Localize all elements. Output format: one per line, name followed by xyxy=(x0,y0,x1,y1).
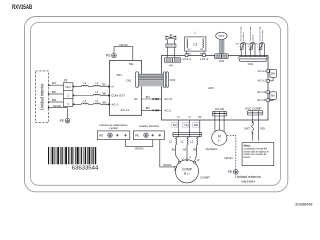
svg-text:Cuadro eléctrico: Cuadro eléctrico xyxy=(139,124,160,128)
svg-text:t°: t° xyxy=(257,46,259,49)
svg-text:AC-L3: AC-L3 xyxy=(258,79,267,83)
svg-text:RD: RD xyxy=(194,123,198,127)
ground symbol in Cuadro box xyxy=(144,133,148,137)
wire YE/GN from interior to PE xyxy=(48,108,67,119)
svg-text:PE: PE xyxy=(99,133,103,137)
reactor L3 box xyxy=(185,37,206,51)
wires coils to compressor xyxy=(176,145,197,161)
svg-text:AC-L2: AC-L2 xyxy=(258,69,267,73)
svg-text:PE: PE xyxy=(129,62,133,66)
inductor L1 row1 xyxy=(81,85,88,86)
svg-text:BU: BU xyxy=(172,148,176,152)
connector CN3 on AP2 xyxy=(163,72,165,88)
inductor L4 row3 xyxy=(93,103,100,104)
fan wires xyxy=(215,116,224,132)
svg-text:3G088408: 3G088408 xyxy=(295,203,312,207)
fan connector xyxy=(212,111,227,116)
thermistor RT1 xyxy=(240,42,246,57)
X1 terminal dots xyxy=(48,85,74,109)
svg-text:U: U xyxy=(182,158,184,161)
SAT protector wires xyxy=(252,115,259,141)
plug connector on BN wire xyxy=(153,109,160,111)
svg-text:AP1: AP1 xyxy=(117,73,123,77)
svg-text:Sensor de temp.: Sensor de temp. xyxy=(258,26,261,42)
wire PE above AP1 (YE/GN) xyxy=(114,47,133,61)
svg-text:BU: BU xyxy=(103,83,107,87)
svg-text:W: W xyxy=(198,115,201,119)
wire label box YE xyxy=(183,123,189,127)
svg-text:YE: YE xyxy=(184,123,188,127)
svg-text:BN: BN xyxy=(52,98,56,102)
compressor coil leads xyxy=(176,137,200,139)
wire BN from interior xyxy=(48,101,63,103)
wire AP1 N1 to AP2 AC-N (BU) xyxy=(142,98,162,100)
svg-text:Sensor de temp.: Sensor de temp. xyxy=(249,26,252,42)
svg-text:BN: BN xyxy=(200,49,203,51)
thermistor RT3 xyxy=(259,42,265,57)
svg-text:de tubería: de tubería xyxy=(242,31,245,41)
ground PE fan xyxy=(234,170,239,175)
svg-text:LX1-2: LX1-2 xyxy=(200,57,209,61)
inductor L1 (V) xyxy=(187,139,188,145)
ground PE above AP1 xyxy=(112,53,117,58)
svg-text:t°: t° xyxy=(248,46,250,49)
svg-text:BU: BU xyxy=(188,54,191,56)
svg-text:YE/GN: YE/GN xyxy=(163,163,172,167)
svg-text:CF-AN: CF-AN xyxy=(215,107,224,111)
Cuadro box xyxy=(133,131,164,140)
svg-text:L: L xyxy=(194,31,196,35)
jumper BN box xyxy=(270,69,277,77)
wire row2 X1 to AP1 (COM-OUT) xyxy=(73,95,94,97)
svg-text:N(1): N(1) xyxy=(65,85,70,89)
solenoid valve 4V symbol xyxy=(166,35,176,44)
svg-text:L1: L1 xyxy=(181,140,185,144)
L3 left coil xyxy=(187,39,188,48)
L3 right coil xyxy=(203,39,204,48)
OVC-COMP connector xyxy=(247,111,262,115)
svg-text:CKV: CKV xyxy=(219,34,225,38)
edge terminal marks right xyxy=(267,70,269,102)
svg-text:Ventilador: Ventilador xyxy=(206,147,218,151)
svg-text:CN1: CN1 xyxy=(219,59,225,63)
svg-text:exterior: exterior xyxy=(252,34,255,41)
jumper BU box xyxy=(270,92,277,100)
compressor wires U V W xyxy=(178,120,199,132)
svg-text:OVC-COMP: OVC-COMP xyxy=(245,107,262,111)
svg-text:BU: BU xyxy=(173,123,177,127)
svg-text:Unidad interior: Unidad interior xyxy=(39,83,44,110)
svg-text:CN1: CN1 xyxy=(126,79,132,83)
svg-text:BK: BK xyxy=(103,92,107,96)
svg-text:RD: RD xyxy=(260,126,265,130)
svg-text:BU: BU xyxy=(188,49,191,51)
svg-text:N1: N1 xyxy=(134,97,138,101)
wire AP1 AC-L1 to AP2 AC-L (BN) xyxy=(142,109,162,111)
svg-text:YE/GN: YE/GN xyxy=(135,146,144,150)
wire label box RD xyxy=(193,123,199,127)
svg-text:PE: PE xyxy=(106,54,110,58)
L3 wires to LX1 connectors xyxy=(187,51,204,55)
plug connector on BU wire xyxy=(153,98,160,100)
YE/GN wire Cuadro to compressor E xyxy=(160,140,175,167)
svg-text:YE: YE xyxy=(183,148,187,152)
svg-text:AC-L: AC-L xyxy=(164,108,171,112)
unidad interior dashed box xyxy=(36,71,49,123)
entry arrows into AP1 xyxy=(108,85,110,105)
svg-text:BU: BU xyxy=(146,95,150,99)
svg-text:AC-L: AC-L xyxy=(112,102,119,106)
svg-text:U: U xyxy=(177,115,179,119)
fan motor M xyxy=(212,130,227,145)
outer border frame xyxy=(25,17,288,192)
svg-text:Sensor de temp.: Sensor de temp. xyxy=(240,26,243,42)
svg-text:de descarga: de descarga xyxy=(261,29,264,41)
dashed ground wire fan xyxy=(227,135,236,169)
svg-text:PE: PE xyxy=(60,119,64,123)
4V connector on AP2 xyxy=(164,58,180,63)
svg-text:63633544: 63633544 xyxy=(241,179,255,183)
svg-text:SAT: SAT xyxy=(244,126,250,130)
PCB box AP1 xyxy=(110,61,142,116)
svg-text:1~: 1~ xyxy=(218,138,222,142)
inductor L1 row3 xyxy=(81,103,88,104)
terminal block X1 xyxy=(63,83,73,107)
svg-text:AC-N1: AC-N1 xyxy=(257,90,267,94)
svg-text:BK: BK xyxy=(52,90,56,94)
wire row1 X1 to AP1 (N) xyxy=(73,86,81,88)
svg-text:L3: L3 xyxy=(193,42,197,46)
barcode xyxy=(48,147,96,164)
svg-text:PE: PE xyxy=(228,170,232,174)
svg-text:Unidad exterior: Unidad exterior xyxy=(235,175,261,179)
CKV cable xyxy=(219,39,224,54)
svg-text:CN2: CN2 xyxy=(248,62,254,66)
svg-text:N: N xyxy=(112,85,114,89)
capacitor CKV xyxy=(216,32,227,39)
Lamina box xyxy=(97,131,129,140)
svg-text:AP2: AP2 xyxy=(208,86,214,90)
svg-text:BN: BN xyxy=(146,106,150,110)
svg-text:COMP: COMP xyxy=(200,176,209,180)
CN1 connector on AP2 xyxy=(215,54,229,59)
svg-text:hierro.: hierro. xyxy=(244,156,251,159)
4V wires to connector xyxy=(168,47,175,57)
4V coil box xyxy=(166,44,176,47)
svg-text:AC-L1: AC-L1 xyxy=(121,108,130,112)
wire BK from interior xyxy=(48,93,63,95)
svg-text:YE/GN: YE/GN xyxy=(53,104,62,108)
Lamina terminals xyxy=(116,134,127,137)
inductor L2 (U) xyxy=(176,139,177,145)
svg-text:YE/GN: YE/GN xyxy=(119,43,128,47)
svg-text:central: central xyxy=(109,126,118,130)
inductor L4 row2 xyxy=(93,94,100,95)
svg-text:COM·OUT: COM·OUT xyxy=(111,93,125,97)
connector CN1 on AP1 xyxy=(136,72,139,88)
svg-text:BU: BU xyxy=(271,94,275,98)
PCB box AP2 xyxy=(162,56,269,121)
svg-text:AC-N: AC-N xyxy=(164,97,172,101)
plug strip pins xyxy=(178,132,199,136)
thermistor RT2 xyxy=(249,42,255,57)
inductor L4 row1 xyxy=(93,85,100,86)
svg-text:L2: L2 xyxy=(190,140,194,144)
wire row3 X1 to AP1 (AC-L) xyxy=(73,103,81,105)
svg-text:BN: BN xyxy=(103,101,107,105)
ground symbol in Lamina box xyxy=(108,133,112,137)
ground PE below X1 xyxy=(65,118,70,123)
ribbon cable CN1-CN3 xyxy=(139,74,164,87)
Cuadro terminals xyxy=(152,134,162,137)
svg-text:PE: PE xyxy=(135,133,139,137)
inductor L2 (W) xyxy=(197,139,198,145)
LX1-2 connector mark xyxy=(203,54,206,57)
jumper BN wires xyxy=(269,71,273,81)
svg-text:AC-N2: AC-N2 xyxy=(257,98,267,102)
svg-text:BN: BN xyxy=(271,71,275,75)
note box xyxy=(242,143,274,166)
svg-text:63633544: 63633544 xyxy=(72,166,99,172)
jumper BU wires xyxy=(269,92,273,100)
compressor plug strip xyxy=(173,132,202,136)
svg-text:L2: L2 xyxy=(169,140,173,144)
compressor COMP xyxy=(175,160,198,183)
svg-text:BU: BU xyxy=(52,81,56,85)
svg-text:CN3: CN3 xyxy=(170,78,176,82)
svg-text:X1: X1 xyxy=(64,79,68,83)
wire label box BU xyxy=(172,123,178,127)
svg-text:t°: t° xyxy=(238,46,240,49)
YE/GN wire between boxes xyxy=(126,140,153,147)
connector CN2 on AP2 xyxy=(239,57,267,62)
svg-text:LX1-1: LX1-1 xyxy=(183,57,192,61)
wire BU from interior xyxy=(48,84,63,86)
LX1-1 connector mark xyxy=(185,54,188,57)
svg-text:M 1~: M 1~ xyxy=(184,171,191,175)
svg-text:RXV35AB: RXV35AB xyxy=(12,5,33,11)
compressor terminals xyxy=(175,159,196,169)
svg-text:YE/GN: YE/GN xyxy=(224,156,233,160)
